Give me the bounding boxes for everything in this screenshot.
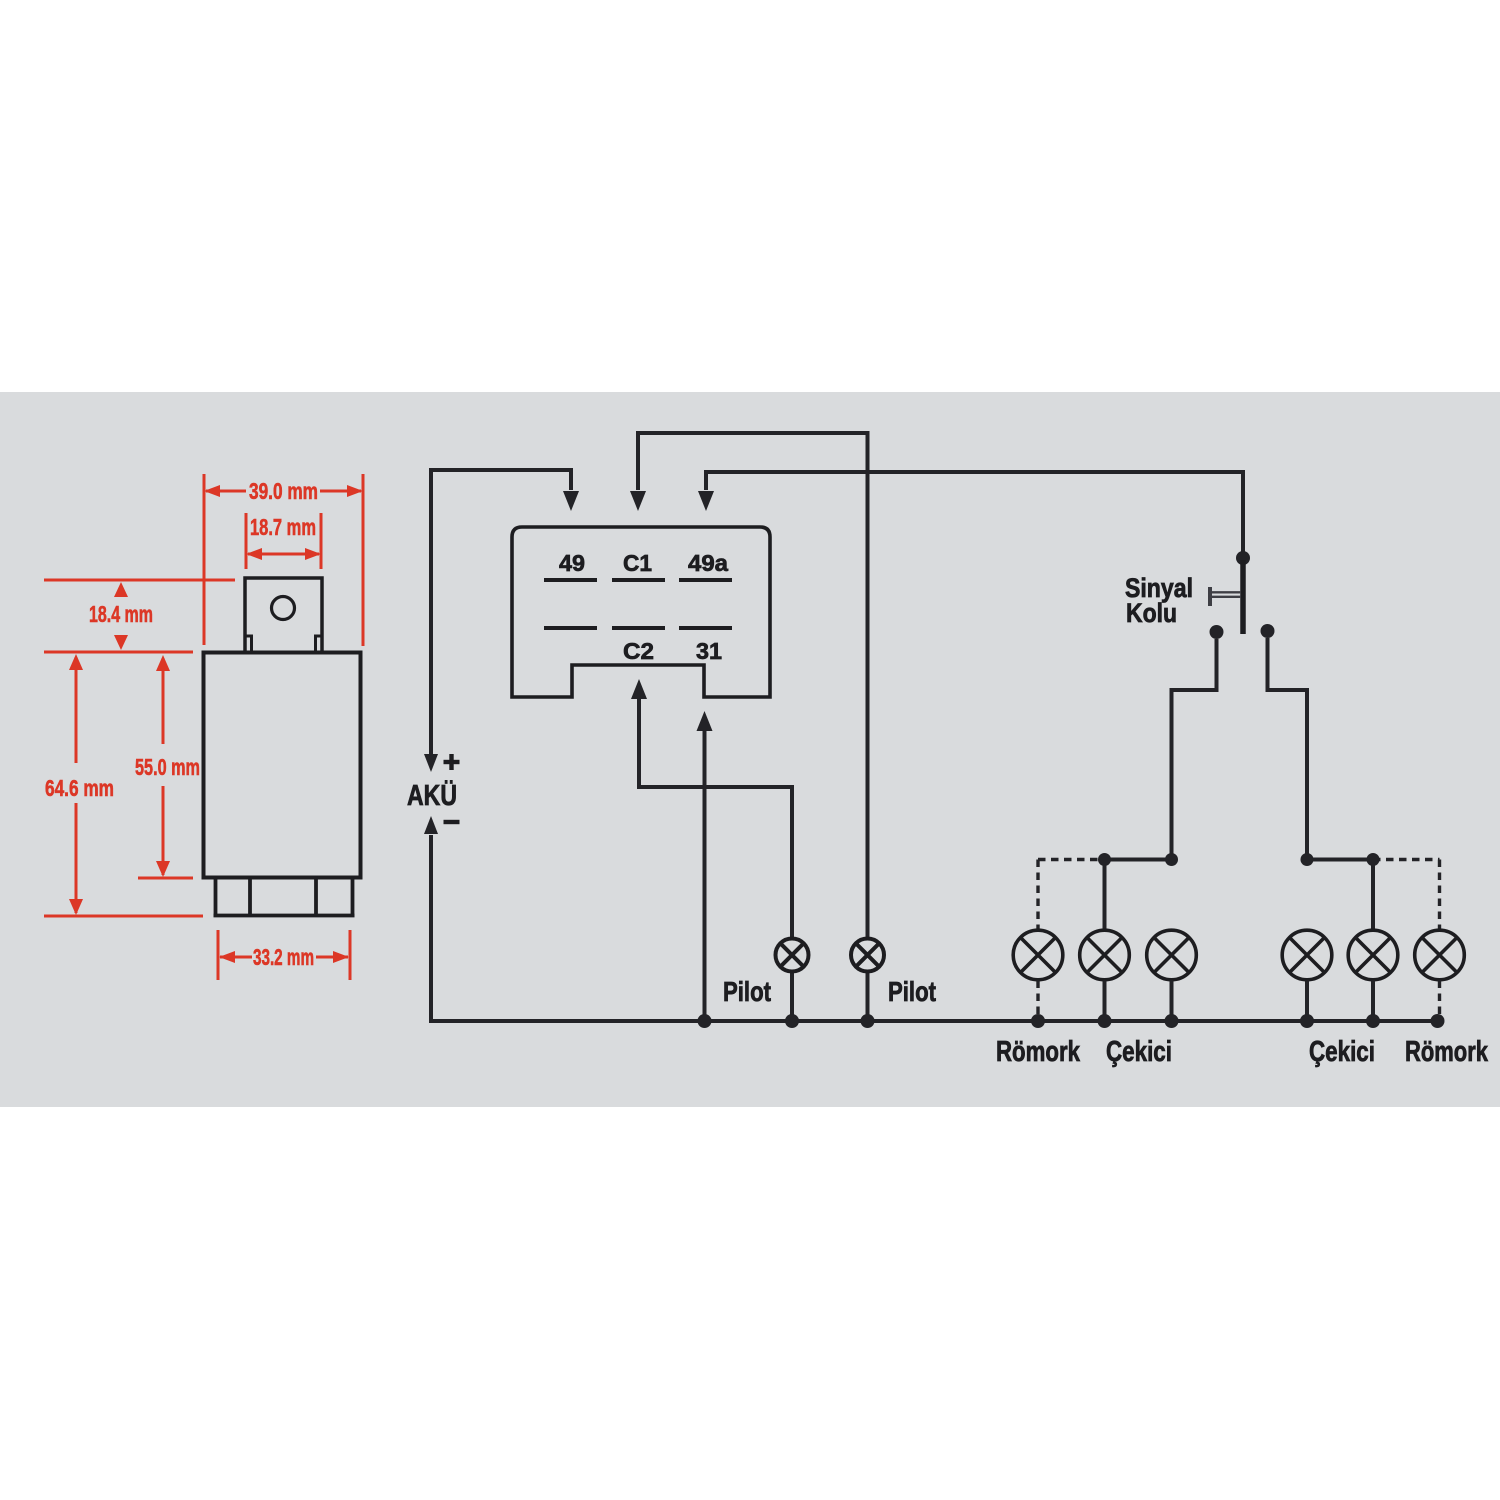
arrowhead into pin C2 (up) [631,679,647,699]
svg-text:Pilot: Pilot [723,976,771,1007]
arrowhead 18.4 down [114,635,128,650]
relay body [204,653,361,878]
arrowhead 39.0 right [347,485,363,497]
switch input junction dot [1236,551,1250,565]
arrowhead into pin 31 (up) [697,711,713,731]
wire C1 to pilot lamp 2 [638,433,868,938]
svg-text:64.6 mm: 64.6 mm [45,775,114,801]
extent line 18.7 right [320,513,323,569]
extent line 33.2 left [217,930,220,980]
switch contact dot left [1210,625,1224,639]
extent line 39.0 left [203,474,206,645]
arrowhead 64.6 up [69,654,83,670]
switch handle [1210,587,1241,606]
extent line body bottom [44,915,203,918]
svg-text:18.7 mm: 18.7 mm [250,514,316,540]
junction dot top left b [1165,853,1178,866]
dimension line 18.7 [248,553,319,556]
junction dot bus L2 [1098,1014,1112,1028]
arrowhead 64.6 down [69,899,83,915]
extent line 18.7 left [245,513,248,569]
svg-text:49a: 49a [688,550,728,576]
junction dot bus L6 [1431,1014,1445,1028]
arrowhead into pin 49 [563,491,579,511]
lamp L2 (Cekici left a) [1080,930,1130,980]
svg-text:AKÜ: AKÜ [407,779,457,812]
pin 49 contact line [544,578,597,582]
wire lamp L4 to bus [1305,981,1309,1022]
dimension line 39.0 [206,490,246,493]
lamp L5 (Cekici right b) [1348,930,1398,980]
lamp top bus left [1105,858,1172,862]
battery minus sign [444,820,460,824]
junction dot bus L3 [1165,1014,1179,1028]
svg-text:C2: C2 [623,638,654,664]
junction dot lamp1/bus [785,1014,799,1028]
junction dot bus L4 [1300,1014,1314,1028]
extent line 39.0 right [362,474,365,646]
tab mounting hole [272,597,295,620]
dashed lamp L6 to bus [1438,981,1441,1022]
svg-text:39.0 mm: 39.0 mm [249,478,318,504]
dashed trailer feed top right [1373,860,1440,930]
wire pilot lamp 2 to bus [866,972,870,1022]
junction dot top right b [1367,853,1380,866]
arrowhead 18.4 up [114,582,128,597]
junction dot lamp2/bus [861,1014,875,1028]
wire C2 to pilot lamp 1 [639,697,792,938]
wire switch right contact to right lamp group [1268,638,1308,860]
wire to lamp L5 [1371,860,1375,931]
battery plus sign [444,754,460,770]
wire lamp L5 to bus [1371,981,1375,1022]
pin C2 contact line [612,626,665,630]
svg-text:Çekici: Çekici [1106,1036,1172,1068]
arrowhead battery - (up) [424,816,438,834]
relay pins [214,878,355,916]
lamp L6 (Romork right) [1415,930,1465,980]
pilot lamp 2 [851,939,884,972]
svg-text:31: 31 [696,638,722,664]
lamp L4 (Cekici right a) [1282,930,1332,980]
wire battery+ to pin 49 [431,470,571,755]
arrowhead into pin C1 [630,491,646,511]
wire to lamp L2 [1103,860,1107,931]
arrowhead battery + (down) [424,754,438,772]
dashed lamp L1 to bus [1036,981,1039,1022]
dimension line 64.6 upper [75,657,78,763]
wire battery- and bottom bus [431,835,1438,1021]
wire pilot lamp 1 to bus [790,972,794,1022]
lamp L1 (Romork left) [1013,930,1063,980]
svg-text:C1: C1 [623,550,652,576]
arrowhead 39.0 left [204,485,220,497]
extent line body top [44,651,193,654]
svg-text:Kolu: Kolu [1126,598,1177,628]
junction dot top left a [1098,853,1111,866]
extent line 33.2 right [349,930,352,980]
lamp top bus right [1307,858,1373,862]
wire 49a to signal switch [706,472,1243,552]
svg-text:49: 49 [559,550,585,576]
dimension line 55.0 lower [162,786,165,875]
arrowhead into pin 49a [698,491,714,511]
pin 49a contact line [679,578,732,582]
junction dot top right a [1301,853,1314,866]
gray diagram band [0,392,1500,1107]
junction dot bus L5 [1366,1014,1380,1028]
svg-text:Römork: Römork [996,1036,1081,1068]
junction dot bus L1 [1031,1014,1045,1028]
dimension line 39.0 right segment [320,490,361,493]
dimension line 33.2 left segment [220,956,252,959]
relay mounting tab outline [245,578,322,651]
svg-text:33.2 mm: 33.2 mm [253,944,314,970]
junction dot 31/bus [698,1014,712,1028]
tab foot right [316,636,323,651]
svg-text:Çekici: Çekici [1309,1036,1375,1068]
wire switch left contact to left lamp group [1172,639,1217,860]
extent line tab top [44,579,235,582]
tab foot left [245,636,252,651]
svg-text:Pilot: Pilot [888,976,936,1007]
dimension line 64.6 lower [75,803,78,913]
pin lower-left contact line [544,626,597,630]
svg-text:Römork: Römork [1405,1036,1489,1068]
pin C1 contact line [612,578,665,582]
dimension line 55.0 upper [162,658,165,744]
extent line 55.0 bottom [138,877,193,880]
arrowhead 18.7 right [305,548,321,560]
dimension line 33.2 right segment [316,956,348,959]
arrowhead 55.0 down [156,861,170,877]
wire lamp L2 to bus [1103,981,1107,1022]
pin 31 contact line [679,626,732,630]
switch contact dot right [1261,624,1275,638]
arrowhead 55.0 up [156,655,170,671]
dashed trailer feed top left [1038,860,1105,930]
switch lever [1240,560,1246,634]
arrowhead 33.2 left [219,951,235,963]
lamp L3 (Cekici left b) [1147,930,1197,980]
arrowhead 33.2 right [333,951,349,963]
svg-text:55.0 mm: 55.0 mm [135,754,200,780]
wire lamp L3 to bus [1170,981,1174,1022]
svg-text:18.4 mm: 18.4 mm [89,601,153,627]
connector outline [512,527,770,697]
pilot lamp 1 [776,939,809,972]
arrowhead 18.7 left [246,548,262,560]
wire pin 31 to ground bus [703,729,707,1021]
